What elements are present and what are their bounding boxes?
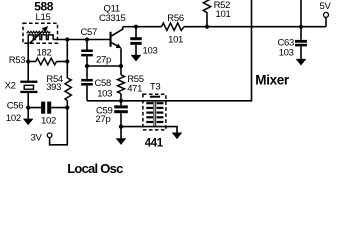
terminal 3V circle [47,133,52,138]
wire colpitts node to emitter [87,65,121,67]
wire X2 bottom lead [27,93,29,108]
wire left column L15 to R53 node [27,42,29,62]
wire C63 column [300,0,302,59]
svg-text:3V: 3V [31,132,43,143]
svg-text:471: 471 [127,83,142,94]
crystal X2 body [24,85,33,89]
wire 182 row right [57,61,68,63]
ground below C63 [296,59,307,66]
resistor R52 zigzag [203,0,210,15]
transistor Q11 base bar [110,32,112,47]
svg-text:R53: R53 [9,55,26,66]
wire Q11 collector [112,27,123,36]
svg-text:101: 101 [168,34,183,45]
transformer T3 core [154,101,156,127]
transistor Q11 emitter arrow [116,44,122,49]
wire 5V lead [325,18,327,27]
wire R52 bottom lead [206,15,208,27]
svg-text:103: 103 [97,89,112,100]
inductor L15 tuning arrow [29,31,43,44]
svg-text:103: 103 [279,47,294,58]
svg-text:Mixer: Mixer [255,72,290,87]
wire 103 cap column [135,27,137,55]
transformer T3 slug bar [150,96,160,98]
transformer T3 right winding [157,102,164,123]
wire bottom rail to mixer edge [87,0,252,101]
wire emitter column [120,48,122,101]
resistor R55 zigzag [118,75,125,94]
wire right column top (node to 182) [66,40,68,62]
capacitor C58 plates [81,79,93,82]
resistor R56 zigzag [162,23,185,30]
svg-text:103: 103 [143,45,158,56]
wire Q11 emitter [112,43,118,46]
svg-text:393: 393 [46,82,61,93]
svg-text:C3315: C3315 [99,13,126,24]
ground below C56 [23,119,34,126]
inductor L15 dashed box [23,23,58,43]
svg-text:C56: C56 [7,100,24,111]
svg-text:102: 102 [6,113,21,124]
transformer T3 dashed box [143,94,166,130]
inductor L15 coil [28,35,53,42]
transformer T3 left winding [146,102,153,123]
svg-text:5V: 5V [320,1,332,12]
terminal 5V circle [324,12,329,17]
wire C56 node to ground [27,108,29,119]
svg-text:27p: 27p [96,114,111,125]
wire 182 node to R54 [66,62,68,79]
svg-text:27p: 27p [96,54,111,65]
svg-text:R56: R56 [167,13,184,24]
crystal X2 bottom plate [20,91,37,93]
ground below C59 [116,138,127,145]
capacitor 103 plates (Q11 decoupling) [130,37,141,40]
svg-text:182: 182 [37,47,52,58]
svg-text:441: 441 [145,138,164,150]
svg-text:C57: C57 [81,27,98,38]
svg-text:X2: X2 [5,81,16,92]
ground below T3 [172,133,183,140]
svg-text:T3: T3 [150,82,161,93]
resistor 182 zigzag [36,58,57,65]
wire T3 bottom row to ground [121,127,177,133]
svg-text:Local Osc: Local Osc [67,161,123,176]
ground below 103 cap [131,55,142,62]
resistor R54 zigzag [65,78,71,101]
svg-text:102: 102 [41,115,56,126]
svg-text:C58: C58 [95,78,112,89]
wire R54 to 102 node to 3V elbow [50,101,68,145]
inductor L15 core hatch [27,31,51,33]
capacitor C63 plates [295,40,307,43]
wire base: L15 to Q11 base [53,39,110,41]
svg-text:L15: L15 [36,12,51,23]
wire C59 column [120,101,122,139]
wire top rail [123,26,326,28]
capacitor C57 plates [81,50,93,53]
wire 102 cap row [28,107,67,109]
wire C58 column [86,66,88,101]
capacitor 102 plates (horizontal) [41,102,45,114]
wire X2 top lead [27,62,29,81]
svg-text:101: 101 [216,9,231,20]
crystal X2 top plate [20,81,37,83]
capacitor C59 plates [114,105,128,108]
wire 182 row left [28,61,36,63]
junction node dots [65,37,69,41]
wire C57 column [86,40,88,67]
